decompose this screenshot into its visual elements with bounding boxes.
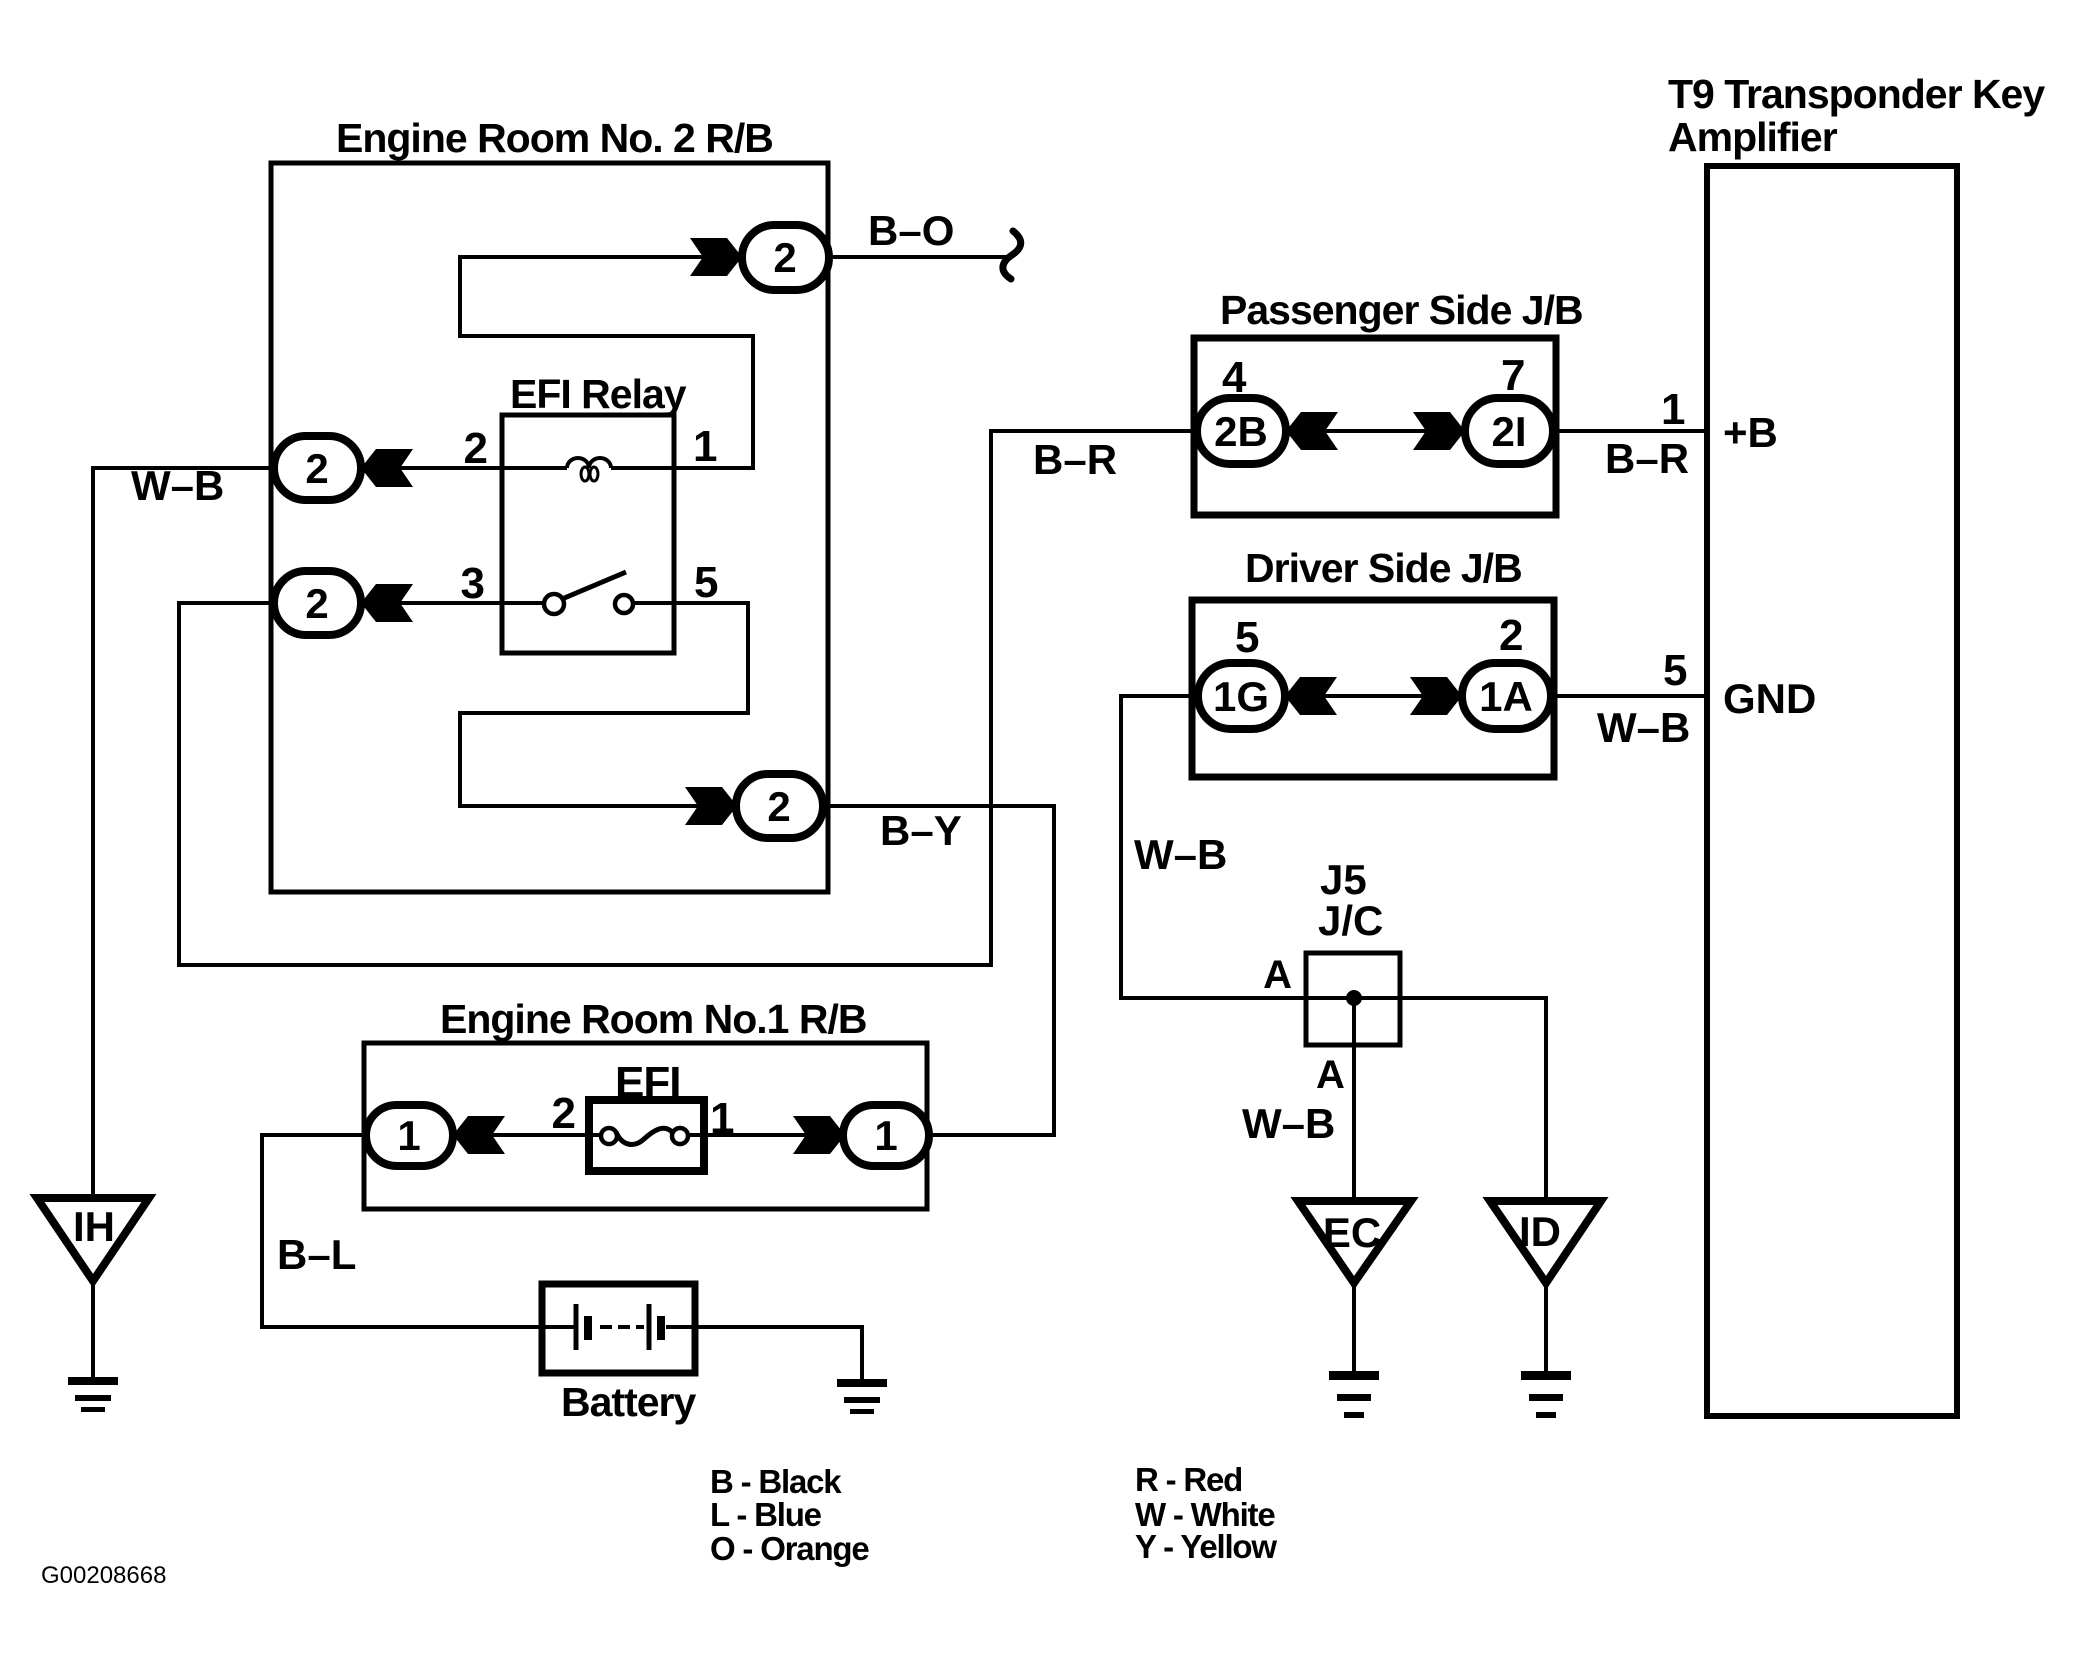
wire B-R from connector 2 (pin 3) to Passenger Side J/B 2B [179,431,1197,965]
svg-text:2: 2 [552,1089,576,1138]
relay box EFI Relay [502,415,674,653]
ground symbol under ID [1521,1371,1571,1418]
svg-text:5: 5 [1235,613,1259,662]
connector 2 (pin 2 row) [274,436,361,500]
wire EFI fuse to connector 1 [688,1133,845,1137]
svg-text:2B: 2B [1214,408,1268,455]
arrow into connector 1 right [793,1116,845,1154]
amplifier box T9 Transponder Key Amplifier [1707,166,1957,1416]
svg-text:EFI Relay: EFI Relay [510,371,687,417]
svg-text:GND: GND [1723,675,1816,722]
svg-text:J/C: J/C [1318,897,1383,944]
connector 2 (pin 3 row) [274,571,361,635]
wire W-B from node A down to EC triangle [1352,998,1356,1201]
wire relay pin 3 to connector 2 [361,601,502,605]
svg-text:W–B: W–B [1134,831,1227,878]
svg-text:A: A [1316,1053,1345,1097]
arrow into connector 2B [1286,412,1338,450]
wire B-L from connector 1 to battery [262,1135,542,1327]
relay coil [502,466,674,470]
svg-text:B–Y: B–Y [880,807,962,854]
arrow into connector 1G [1285,677,1337,715]
svg-text:G00208668: G00208668 [41,1562,166,1589]
connector 1 (Engine Room No.1 left) [366,1105,453,1166]
svg-text:W–B: W–B [1597,704,1690,751]
battery cell plates [542,1325,576,1329]
svg-text:2: 2 [773,234,796,281]
svg-text:T9 Transponder Key: T9 Transponder Key [1668,71,2045,117]
svg-text:Engine Room No.1 R/B: Engine Room No.1 R/B [440,996,866,1042]
svg-text:2I: 2I [1491,408,1526,455]
wire between 2B and 2I [1286,429,1465,433]
wire W-B from 1A to T9 amplifier pin 5 [1551,694,1707,698]
wire W-B from 1G through J5 junction connector to ID triangle [1121,696,1546,1201]
connector 2B [1197,398,1286,464]
fuse element [601,1128,617,1144]
junction block box Engine Room No.1 R/B [364,1043,927,1209]
svg-text:Battery: Battery [561,1379,696,1425]
svg-text:O - Orange: O - Orange [710,1530,869,1567]
svg-text:R - Red: R - Red [1135,1461,1242,1498]
svg-text:ID: ID [1519,1208,1561,1255]
svg-text:EC: EC [1323,1209,1381,1256]
node A junction dot [1346,990,1362,1006]
arrow into connector 2 pin3 [361,584,413,622]
junction block box Driver Side J/B [1192,600,1554,777]
connector 2I [1465,398,1553,464]
svg-text:B - Black: B - Black [710,1463,842,1500]
wire W-B from connector 2 (pin 2) to IH ground triangle [93,468,274,1198]
wire battery to ground [695,1327,862,1379]
wire ID triangle to ground [1544,1283,1548,1371]
svg-text:+B: +B [1723,409,1778,456]
svg-text:7: 7 [1501,351,1525,400]
junction block box Engine Room No. 2 R/B [271,163,828,892]
wire relay pin 5 S-path to connector 2 (B-Y) [460,603,748,806]
fuse box EFI [589,1100,704,1171]
arrow into connector 2 top [690,238,742,276]
wire break squiggle [1003,231,1021,279]
svg-text:5: 5 [694,558,718,607]
svg-text:1A: 1A [1479,673,1533,720]
svg-text:B–R: B–R [1605,435,1689,482]
relay switch contacts and lever [502,601,544,605]
battery box [542,1284,695,1373]
wire relay pin 2 to connector 2 [361,466,502,470]
svg-text:1: 1 [693,422,717,471]
ground symbol under IH [68,1377,118,1412]
arrow into connector 1A [1410,677,1462,715]
svg-text:B–O: B–O [868,207,954,254]
junction block box Passenger Side J/B [1194,338,1556,515]
svg-text:5: 5 [1663,646,1687,695]
svg-text:Y - Yellow: Y - Yellow [1135,1528,1277,1565]
ground triangle ID [1490,1201,1601,1283]
wire IH triangle to ground [91,1281,95,1377]
svg-text:L - Blue: L - Blue [710,1496,822,1533]
wire relay pin 1 to connector 2 (top, B-O) [460,257,753,468]
svg-text:4: 4 [1222,353,1247,402]
svg-text:Engine Room No. 2 R/B: Engine Room No. 2 R/B [336,115,773,161]
svg-text:1: 1 [874,1112,897,1159]
svg-text:2: 2 [767,783,790,830]
arrow into connector 1 left [453,1116,505,1154]
svg-text:A: A [1263,953,1292,997]
connector 1 (Engine Room No.1 right) [843,1105,929,1166]
svg-text:B–R: B–R [1033,436,1117,483]
arrow into connector 2 B-Y [685,787,737,825]
ground symbol under EC [1329,1371,1379,1418]
svg-text:2: 2 [305,445,328,492]
svg-text:J5: J5 [1320,856,1367,903]
wire connector 1 to EFI fuse [453,1133,601,1137]
svg-text:1: 1 [710,1094,734,1143]
arrow into connector 2I [1413,412,1465,450]
wire between 1G and 1A [1285,694,1462,698]
ground triangle IH [37,1198,149,1281]
connector 2 (B-Y row) [736,774,823,838]
ground triangle EC [1298,1201,1411,1283]
svg-text:3: 3 [461,559,485,608]
svg-text:W–B: W–B [1242,1100,1335,1147]
svg-text:W–B: W–B [131,462,224,509]
svg-text:Passenger Side J/B: Passenger Side J/B [1220,287,1583,333]
svg-text:B–L: B–L [277,1231,356,1278]
connector 2 (top of Engine Room No.2, B-O) [742,225,829,290]
ground symbol under battery [837,1379,887,1414]
svg-text:2: 2 [464,424,488,473]
svg-text:IH: IH [73,1203,115,1250]
connector 1A [1462,663,1551,729]
svg-text:1G: 1G [1213,673,1269,720]
connector 1G [1198,663,1285,729]
svg-text:1: 1 [397,1112,420,1159]
junction connector box J5 J/C [1306,953,1400,1045]
wire B-Y from connector 2 to Engine Room No.1 connector 1 [823,806,1054,1135]
svg-text:1: 1 [1661,385,1685,434]
svg-text:Amplifier: Amplifier [1668,114,1838,160]
svg-text:Driver Side J/B: Driver Side J/B [1245,545,1522,591]
svg-text:2: 2 [1499,611,1523,660]
svg-text:2: 2 [305,580,328,627]
arrow into connector 2 pin2 [361,449,413,487]
svg-text:EFI: EFI [615,1058,680,1107]
wire B-R from 2I to T9 amplifier pin 1 [1553,429,1707,433]
wire B-O out of connector 2 to break squiggle [829,255,1008,259]
wire EC triangle to ground [1352,1283,1356,1371]
